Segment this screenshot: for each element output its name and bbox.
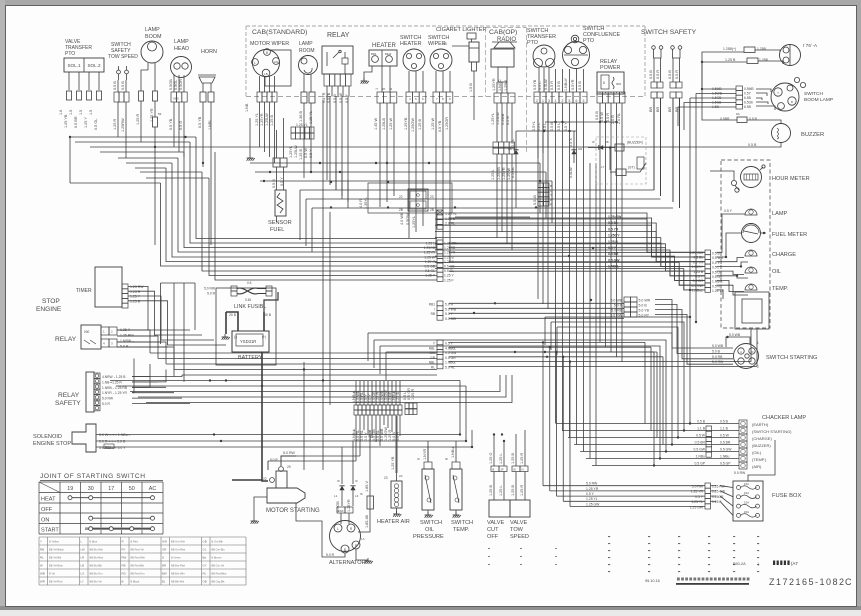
alternator P wire	[358, 430, 370, 532]
svg-text:1.25 YL: 1.25 YL	[586, 497, 598, 501]
svg-text:0.5 GB: 0.5 GB	[424, 265, 435, 269]
svg-text:5.0 MB: 5.0 MB	[445, 317, 456, 321]
svg-text:1.25YR: 1.25YR	[260, 113, 264, 126]
svg-text:0.5 L: 0.5 L	[557, 123, 561, 131]
svg-text:0.5 GP: 0.5 GP	[720, 462, 731, 466]
svg-text:0.5 GW: 0.5 GW	[720, 448, 732, 452]
svg-text:2F: 2F	[501, 468, 505, 472]
svg-text:RELAY: RELAY	[58, 392, 80, 399]
svg-text:GBD: GBD	[173, 97, 179, 101]
svg-text:1.25 GW: 1.25 GW	[608, 215, 622, 219]
buzzer bottom wire	[560, 143, 781, 148]
fuse I6	[367, 496, 374, 509]
svg-text:4.0 WB: 4.0 WB	[400, 212, 404, 225]
connector central bottom 2	[405, 403, 409, 409]
svg-text:2: 2	[562, 99, 564, 103]
svg-text:0.5 GW: 0.5 GW	[692, 284, 704, 288]
svg-text:8: 8	[603, 81, 605, 85]
svg-text:YSD31R: YSD31R	[240, 339, 256, 344]
svg-text:P: P	[355, 544, 357, 548]
vertical x304	[303, 362, 305, 470]
svg-text:15A: 15A	[744, 510, 749, 514]
connector mid-9	[437, 240, 443, 245]
svg-text:BB Grn-Blu: BB Grn-Blu	[212, 547, 226, 551]
svg-text:59: 59	[158, 112, 162, 116]
svg-text:0.5 B: 0.5 B	[506, 116, 510, 125]
ground mid left	[249, 118, 251, 155]
lamp meter	[745, 209, 757, 215]
diode assembly mid	[513, 150, 518, 154]
svg-text:1.25RB: 1.25RB	[444, 246, 456, 250]
svg-text:CIGARET LIGHTER: CIGARET LIGHTER	[436, 27, 487, 33]
svg-text:95.10.16: 95.10.16	[645, 579, 660, 583]
buzzer	[772, 124, 791, 143]
svg-text:5.0 R: 5.0 R	[326, 553, 335, 557]
svg-text:FUEL: FUEL	[270, 227, 284, 233]
svg-text:1.25 R: 1.25 R	[113, 119, 117, 130]
switch boom lamp	[771, 83, 799, 111]
svg-text:Y: Y	[777, 91, 779, 95]
svg-text:W: W	[550, 198, 553, 202]
junction dot bus1	[69, 136, 71, 138]
svg-text:1.25YR: 1.25YR	[347, 499, 351, 512]
svg-text:BOOM: BOOM	[145, 34, 162, 40]
svg-text:19: 19	[443, 42, 447, 46]
svg-text:BB Red-Grn: BB Red-Grn	[131, 571, 146, 575]
svg-text:LW: LW	[81, 547, 85, 551]
svg-text:HOUR METER: HOUR METER	[772, 176, 810, 182]
sensor fuel ground wire	[276, 216, 278, 222]
svg-text:0.5 B: 0.5 B	[649, 70, 653, 79]
svg-text:0.5 B: 0.5 B	[121, 81, 125, 90]
svg-text:30: 30	[88, 486, 94, 492]
svg-text:1.NBuY: 1.NBuY	[564, 77, 568, 91]
meter panel feet	[750, 329, 752, 362]
svg-text:1.36 B: 1.36 B	[299, 111, 303, 122]
feed oil pressure	[427, 441, 429, 462]
svg-text:22: 22	[263, 477, 267, 481]
connector mid-4	[437, 301, 443, 306]
fuse F-left1	[67, 91, 72, 100]
svg-text:RW: RW	[122, 555, 127, 559]
svg-text:0.5 GP: 0.5 GP	[694, 462, 705, 466]
svg-text:NBL: NBL	[429, 346, 435, 350]
svg-text:VALVE: VALVE	[487, 520, 504, 526]
solenoid wires	[96, 434, 460, 436]
svg-text:6.5B: 6.5B	[744, 105, 752, 109]
connector chacker lamp	[739, 420, 747, 427]
svg-text:15A: 15A	[744, 501, 749, 505]
svg-text:BW: BW	[162, 571, 167, 575]
svg-text:B Brown: B Brown	[212, 555, 222, 559]
fuse F-left4	[97, 91, 102, 100]
feed heater air	[396, 416, 398, 473]
svg-text:1.1 B: 1.1 B	[720, 427, 729, 431]
svg-text:STOP: STOP	[42, 298, 60, 305]
timer loop verticals	[161, 282, 196, 284]
connector radio top	[494, 93, 501, 103]
connector lamp head	[171, 92, 176, 102]
svg-text:29: 29	[287, 465, 291, 469]
battery outer box	[216, 288, 276, 365]
svg-text:0.5 BR: 0.5 BR	[720, 441, 731, 445]
battery ground	[225, 312, 227, 334]
svg-text:5.0 YB: 5.0 YB	[639, 308, 650, 312]
svg-text:BB Blu-Yel: BB Blu-Yel	[90, 579, 103, 583]
connector chacker inner	[706, 426, 712, 431]
svg-text:1.25GY: 1.25GY	[692, 265, 704, 269]
switch safety leads down	[653, 98, 655, 190]
svg-text:1.25 B: 1.25 B	[445, 217, 456, 221]
svg-text:0.5 R: 0.5 R	[675, 70, 679, 79]
svg-text:BB Yel-Red: BB Yel-Red	[49, 579, 63, 583]
svg-text:B: B	[344, 548, 346, 552]
chacker bus	[556, 423, 739, 425]
svg-text:LWF: LWF	[338, 509, 344, 513]
svg-text:1.25W: 1.25W	[504, 80, 508, 91]
svg-text:TOW: TOW	[510, 527, 524, 533]
svg-text:5: 5	[569, 99, 571, 103]
svg-text:1.25YR: 1.25YR	[424, 251, 436, 255]
stamp text	[773, 561, 775, 566]
battery plus cable	[264, 292, 278, 312]
svg-text:0.45: 0.45	[245, 298, 251, 302]
svg-text:WB: WB	[40, 571, 45, 575]
cab dashed line across	[246, 96, 645, 98]
svg-text:1.25 YB: 1.25 YB	[64, 114, 68, 128]
switch oil pressure	[422, 469, 434, 510]
svg-text:1.25 GW: 1.25 GW	[586, 502, 600, 506]
svg-text:LAMP: LAMP	[299, 41, 313, 47]
long vertical x323	[322, 100, 324, 470]
long vertical x330	[329, 212, 331, 405]
svg-text:1.25 L: 1.25 L	[499, 485, 503, 496]
svg-text:0.5YR: 0.5YR	[571, 79, 575, 90]
svg-text:5.0 RW⇒⇒ 5.0 Y: 5.0 RW⇒⇒ 5.0 Y	[99, 446, 126, 450]
svg-text:1.25LB: 1.25LB	[382, 117, 386, 130]
svg-text:2A: 2A	[399, 474, 403, 478]
svg-text:1.25 B: 1.25 B	[130, 299, 141, 303]
svg-text:1: 1	[555, 99, 557, 103]
svg-text:6.5Gb: 6.5Gb	[744, 101, 753, 105]
svg-text:000: 000	[84, 330, 90, 334]
svg-text:1.NBu: 1.NBu	[451, 447, 455, 458]
junction dots cab	[269, 171, 271, 173]
fuse lamp boom	[139, 91, 144, 101]
svg-text:TEMP.: TEMP.	[453, 527, 470, 533]
motor ground	[254, 497, 267, 518]
svg-text:C: C	[845, 577, 852, 587]
svg-text:BB Grn-Whi: BB Grn-Whi	[171, 539, 185, 543]
svg-text:ALTERNATOR: ALTERNATOR	[329, 560, 366, 566]
svg-text:5.0 R: 5.0 R	[207, 292, 215, 296]
svg-text:GB: GB	[203, 539, 207, 543]
svg-text:0.5 GW: 0.5 GW	[694, 448, 706, 452]
svg-text:1.NYR→1.25 YR: 1.NYR→1.25 YR	[102, 391, 127, 395]
svg-text:0.5 Y: 0.5 Y	[695, 495, 704, 499]
svg-text:15A: 15A	[744, 482, 749, 486]
svg-text:RB: RB	[40, 547, 44, 551]
svg-text:6.5B: 6.5B	[744, 96, 752, 100]
svg-text:HEATER AIR: HEATER AIR	[377, 519, 410, 525]
oil pressure ground	[427, 510, 429, 514]
svg-text:TOW SPEED: TOW SPEED	[108, 54, 138, 60]
junction dots cab rows	[330, 181, 332, 183]
meter feed wires	[435, 219, 705, 252]
svg-text:1.25 B: 1.25 B	[299, 149, 303, 160]
svg-text:1.25LW: 1.25LW	[265, 113, 269, 126]
svg-text:L1: L1	[334, 494, 338, 498]
svg-text:LB: LB	[264, 72, 268, 76]
alternator diodes	[339, 486, 344, 490]
svg-text:BB Blu-Blk: BB Blu-Blk	[90, 563, 103, 567]
svg-text:0.5Y: 0.5Y	[744, 92, 752, 96]
svg-text:1.25 RW: 1.25 RW	[120, 334, 134, 338]
svg-text:SPEED: SPEED	[510, 534, 529, 540]
svg-text:1.NBu: 1.NBu	[720, 455, 730, 459]
svg-text:1.25 B: 1.25 B	[693, 270, 704, 274]
svg-text:5.0 WB: 5.0 WB	[729, 333, 741, 337]
svg-text:2.0 B: 2.0 B	[611, 115, 615, 124]
svg-text:0.5 G: 0.5 G	[179, 121, 183, 130]
svg-text:1.25 YL: 1.25 YL	[691, 500, 703, 504]
svg-text:0.5GR: 0.5GR	[179, 79, 183, 90]
svg-text:5.0 RW: 5.0 RW	[692, 485, 704, 489]
svg-text:1.25 YB: 1.25 YB	[391, 456, 395, 470]
svg-text:Ba: Ba	[203, 555, 207, 559]
verticals into valves	[493, 435, 495, 446]
svg-text:0.5 Y: 0.5 Y	[586, 492, 595, 496]
svg-text:1.25 G: 1.25 G	[489, 453, 493, 464]
svg-text:0.5 YR: 0.5 YR	[608, 227, 619, 231]
svg-text:Y: Y	[40, 539, 42, 543]
svg-text:0.5 YB: 0.5 YB	[169, 118, 173, 130]
svg-text:0.5 B: 0.5 B	[697, 420, 706, 424]
svg-text:0.5 B: 0.5 B	[550, 122, 554, 131]
svg-text:SOL.1: SOL.1	[67, 63, 80, 68]
svg-text:I9: I9	[592, 140, 595, 144]
svg-text:ON: ON	[41, 517, 49, 523]
svg-text:5.0 R: 5.0 R	[102, 402, 110, 406]
connector switch wiper	[433, 92, 440, 103]
svg-text:VALVE: VALVE	[510, 520, 527, 526]
svg-text:0.5 W: 0.5 W	[304, 148, 308, 158]
svg-text:OIL: OIL	[772, 269, 781, 275]
svg-text:5.0 RW: 5.0 RW	[734, 471, 746, 475]
svg-text:(ST): (ST)	[628, 166, 635, 170]
svg-text:SWITCH: SWITCH	[420, 520, 442, 526]
svg-text:RB: RB	[431, 312, 435, 316]
svg-text:BR: BR	[162, 563, 166, 567]
svg-text:RELAY: RELAY	[55, 336, 77, 343]
svg-text:BB Grn-Red: BB Grn-Red	[171, 547, 186, 551]
svg-text:5.0 Y: 5.0 Y	[445, 312, 454, 316]
relay wires staircase	[117, 330, 150, 353]
svg-text:2: 2	[536, 99, 538, 103]
svg-text:OFF: OFF	[487, 534, 499, 540]
svg-text:1.25 F: 1.25 F	[712, 500, 721, 504]
svg-text:1.25 YR: 1.25 YR	[150, 108, 154, 122]
svg-text:5.0 WB: 5.0 WB	[712, 344, 724, 348]
connector radio bottom	[493, 142, 498, 148]
svg-text:5.0 W⇒⇒⇒ 1.NBu→: 5.0 W⇒⇒⇒ 1.NBu→	[99, 433, 131, 437]
svg-text:1.85.V: 1.85.V	[365, 481, 369, 492]
relay boxes I8 I7	[615, 144, 624, 151]
switch starting top loop	[726, 337, 750, 347]
svg-text:LINK FUSIBL: LINK FUSIBL	[234, 304, 266, 310]
svg-text:0.5 BR: 0.5 BR	[693, 279, 704, 283]
feed diodes alternator	[341, 447, 343, 484]
svg-text:TIMER: TIMER	[76, 288, 92, 294]
connector to motor wires	[268, 460, 356, 462]
svg-text:1.25 L: 1.25 L	[499, 453, 503, 464]
relay block rows	[300, 189, 654, 191]
svg-text:RELAY: RELAY	[327, 32, 350, 39]
svg-text:2B: 2B	[399, 208, 403, 212]
svg-text:HEATER: HEATER	[372, 43, 397, 49]
svg-text:0.5 W: 0.5 W	[600, 112, 604, 122]
connector switch confluence pto	[552, 92, 559, 103]
connector heater	[377, 92, 384, 103]
svg-text:I9: I9	[337, 479, 340, 483]
svg-text:L: L	[254, 61, 256, 65]
fuse F-left3	[87, 91, 92, 100]
boom lamp strip left stubs	[702, 62, 736, 89]
svg-text:POWER: POWER	[600, 65, 620, 71]
svg-text:0.5 Bk: 0.5 Bk	[608, 221, 618, 225]
svg-text:B Blue: B Blue	[90, 539, 98, 543]
cab standard dashed boundary	[246, 25, 645, 27]
svg-text:1.25 B: 1.25 B	[608, 240, 619, 244]
meter feed rows	[449, 213, 705, 252]
svg-text:BB Blu-Grn: BB Blu-Grn	[90, 571, 104, 575]
svg-text:1.25 Y: 1.25 Y	[84, 117, 88, 128]
svg-text:0.5 Bk: 0.5 Bk	[693, 256, 703, 260]
switch starting wires	[655, 300, 733, 349]
svg-text:B Yellow: B Yellow	[49, 539, 59, 543]
svg-text:0.5 GW: 0.5 GW	[608, 258, 620, 262]
svg-text:0.5 GL: 0.5 GL	[511, 167, 515, 178]
connector mid rows to switch starting strip	[449, 302, 624, 304]
connector switch starting	[624, 297, 631, 302]
svg-text:0.5 B: 0.5 B	[748, 143, 757, 147]
svg-text:(TEMP.): (TEMP.)	[752, 457, 767, 462]
fuse top right 1	[744, 47, 755, 53]
svg-text:AC: AC	[149, 486, 157, 492]
svg-text:Z172165-1082: Z172165-1082	[769, 577, 846, 587]
svg-text:0.5 B: 0.5 B	[668, 70, 672, 79]
connector switch transfer pto	[534, 92, 540, 103]
svg-text:1.25 Y: 1.25 Y	[444, 274, 454, 278]
fuel meter	[742, 224, 761, 243]
svg-text:JOINT OF STARTING SWITCH: JOINT OF STARTING SWITCH	[40, 473, 146, 480]
svg-text:1.NBu: 1.NBu	[696, 455, 706, 459]
fuse buzzer	[737, 117, 747, 123]
svg-text:LR: LR	[81, 555, 85, 559]
svg-text:1.NBuL: 1.NBuL	[608, 265, 619, 269]
svg-text:(EARTH): (EARTH)	[752, 422, 769, 427]
mid-6 rows right	[449, 341, 645, 343]
strip to meter wires	[717, 214, 746, 252]
svg-text:L3: L3	[355, 494, 359, 498]
svg-text:GR: GR	[162, 547, 166, 551]
connector central bottom	[354, 405, 358, 410]
svg-text:RL: RL	[203, 571, 207, 575]
svg-text:(OIL): (OIL)	[752, 450, 762, 455]
svg-text:5.0 RW: 5.0 RW	[586, 482, 598, 486]
svg-text:(CHARGE): (CHARGE)	[752, 436, 772, 441]
svg-text:1.5: 1.5	[69, 110, 73, 115]
svg-text:FUEL METER: FUEL METER	[772, 232, 807, 238]
svg-text:HORN: HORN	[201, 49, 217, 55]
sensor fuel	[275, 190, 286, 216]
relay block short row	[455, 216, 530, 218]
sensor fuel wires	[276, 167, 278, 190]
connector relay power	[597, 92, 603, 103]
svg-text:1.45 W: 1.45 W	[374, 118, 378, 130]
project text jp	[676, 576, 750, 579]
svg-text:BB Org-Blk: BB Org-Blk	[212, 579, 226, 583]
bottom-left bundle lower rows	[130, 375, 500, 392]
svg-text:2.0 RL: 2.0 RL	[445, 222, 455, 226]
svg-text:B Red: B Red	[131, 539, 139, 543]
bottom-left bundle long	[110, 380, 460, 382]
alternator wires	[340, 513, 342, 524]
svg-text:R: R	[122, 539, 124, 543]
svg-text:1.25 R: 1.25 R	[136, 114, 140, 125]
svg-text:BM1: BM1	[371, 52, 377, 56]
switch safety 1	[652, 46, 656, 50]
svg-text:RG: RG	[122, 571, 127, 575]
svg-text:1.25 B: 1.25 B	[511, 453, 515, 464]
relay safety left staircase	[132, 375, 182, 377]
svg-text:1.25 GW: 1.25 GW	[690, 251, 704, 255]
svg-text:BE42: BE42	[385, 52, 392, 56]
svg-text:0.5 YR: 0.5 YR	[693, 260, 704, 264]
svg-text:GL: GL	[203, 547, 207, 551]
svg-text:1: 1	[542, 99, 544, 103]
svg-text:0.5 X: 0.5 X	[569, 138, 573, 147]
svg-text:22: 22	[399, 195, 403, 199]
svg-text:B: B	[266, 51, 268, 55]
bus1 left horizontals	[70, 136, 196, 138]
svg-text:(BUZZER): (BUZZER)	[627, 141, 643, 145]
svg-text:L: L	[337, 527, 339, 531]
svg-text:0.5 R: 0.5 R	[550, 81, 554, 90]
svg-text:5.0 RW: 5.0 RW	[712, 360, 724, 364]
svg-text:I8: I8	[445, 457, 448, 461]
svg-text:0.5 GL: 0.5 GL	[94, 119, 98, 130]
svg-text:A: A	[740, 350, 742, 354]
svg-text:15A: 15A	[744, 491, 749, 495]
svg-text:PTO: PTO	[65, 51, 75, 57]
connector relay cab	[324, 74, 329, 86]
connector timer	[122, 284, 128, 289]
heater air ground	[396, 511, 398, 514]
svg-text:1.25RW: 1.25RW	[121, 118, 125, 132]
svg-text:5.0 RW: 5.0 RW	[283, 451, 296, 455]
meter panel inner rect	[735, 292, 769, 329]
fuse feed verticals	[542, 342, 544, 485]
svg-text:B50-2A: B50-2A	[733, 562, 746, 566]
hour meter	[741, 167, 762, 188]
svg-text:20 B: 20 B	[229, 313, 237, 317]
fuse box top wire	[748, 440, 775, 481]
table contacts on	[91, 517, 153, 519]
junction topright	[701, 61, 703, 63]
switch safety long verticals	[689, 105, 691, 107]
svg-text:BB Yel-Blue: BB Yel-Blue	[49, 563, 63, 567]
